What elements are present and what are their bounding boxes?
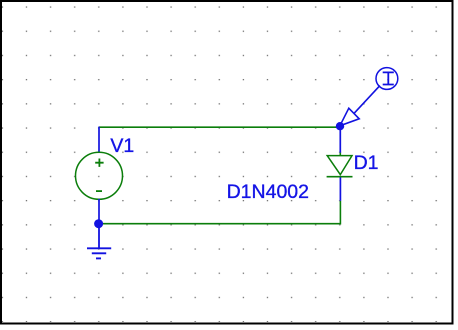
current probe arrowhead <box>340 108 359 126</box>
ground symbol AGND <box>87 248 111 258</box>
ground pin stub <box>98 224 100 249</box>
diode D1 pin top <box>339 126 341 153</box>
voltage source V1 pin top <box>98 127 100 153</box>
V1 plus sign <box>95 159 103 167</box>
voltage source V1 body <box>76 152 123 199</box>
current probe circle <box>376 68 398 90</box>
diode D1 triangle <box>327 156 352 175</box>
wire right vertical (diode to bottom wire) <box>339 201 341 225</box>
svg-text:V1: V1 <box>110 135 134 157</box>
diode D1 cathode bar <box>327 176 353 178</box>
svg-text:D1: D1 <box>354 152 379 174</box>
current probe I glyph <box>383 72 394 84</box>
junction node left <box>94 219 103 228</box>
junction node right <box>336 122 344 130</box>
current probe shaft <box>354 86 380 114</box>
svg-text:D1N4002: D1N4002 <box>227 181 309 203</box>
diode D1 pin bottom <box>339 177 341 200</box>
voltage source V1 pin bottom <box>98 199 100 224</box>
diode D1 pin1 stub green <box>339 153 341 156</box>
wire bottom horizontal <box>99 223 341 225</box>
wire top horizontal <box>99 126 340 128</box>
V1 minus sign <box>96 190 102 192</box>
